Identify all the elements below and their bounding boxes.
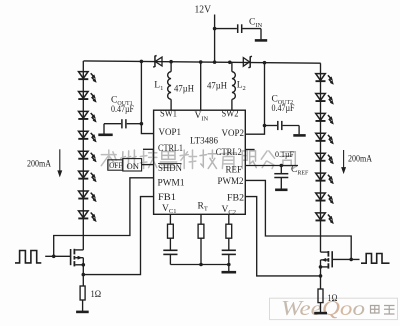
waveform PWM input left [15,251,41,263]
junction node [52,254,56,258]
ground comp network [222,271,237,274]
junction node [319,274,323,278]
junction node [213,27,217,31]
switch OFF/ON [108,160,123,170]
svg-text:200mA: 200mA [27,158,51,168]
capacitor COUT2 0.47uF [265,125,278,127]
diode D2 schottky [243,58,249,67]
wire PWM2 routing [245,180,351,259]
transistor Q2 NMOS [331,251,333,267]
LED D12 right string [316,94,326,101]
LED D11 right string [316,74,326,81]
junction node [227,263,231,267]
svg-text:SW2: SW2 [222,110,239,120]
junction node [140,60,144,64]
svg-text:RT: RT [198,201,208,212]
svg-text:VIN: VIN [195,111,209,122]
LED D8 left string [79,171,89,178]
wire Q2 source down [320,260,322,289]
LED D9 left string [79,191,89,198]
inductor L2 47uH [231,62,233,71]
svg-text:LT3486: LT3486 [190,137,218,147]
wire output node2 to VOP2 [245,63,264,135]
wire left LED string [82,61,84,250]
resistor RT [198,224,204,238]
svg-text:VOP2: VOP2 [222,129,245,139]
ground for CREF [275,189,287,192]
wire VIN pin drop [200,62,202,110]
svg-text:0.47µF: 0.47µF [111,104,134,114]
junction node [263,61,267,65]
LED D6 left string [79,131,89,138]
wire RT pin [200,214,202,224]
svg-text:OFF: OFF [109,161,122,170]
LED D3 left string [79,72,89,79]
LED D16 right string [316,173,326,180]
svg-text:SHDN: SHDN [158,164,182,174]
svg-text:47µH: 47µH [174,84,194,94]
LED D17 right string [316,193,326,200]
wire 12V drop [214,15,216,63]
svg-text:47µH: 47µH [207,81,227,91]
wire FB1 routing [83,197,153,275]
wire comp bottom rail [170,264,228,266]
svg-text:FB1: FB1 [158,193,176,203]
LED D15 right string [316,153,326,160]
junction node [228,60,232,64]
wire FB2 routing [245,197,320,276]
svg-text:200mA: 200mA [348,154,372,164]
wire output node to VOP1 [141,61,153,133]
capacitor CREF 0.1uF [280,166,282,174]
svg-text:SW1: SW1 [160,110,177,120]
junction node [199,263,203,267]
inductor L1 47uH [170,62,172,72]
junction node [169,60,173,64]
junction node [319,265,323,269]
watermark chinese text row [101,150,116,169]
LED D5 left string [79,111,89,118]
transistor Q1 NMOS [70,249,72,265]
arrow 200mA left [59,149,61,172]
watermark weeqoo box [270,298,398,319]
ground for R2 [314,312,327,315]
junction node [349,258,353,262]
compensation network VC1 [169,214,171,224]
resistor R2 1ohm [318,289,323,303]
svg-text:1Ω: 1Ω [91,290,102,300]
wire SHDN to switch [142,164,154,166]
svg-text:CTRL1: CTRL1 [158,144,183,154]
wire REF line [245,165,298,167]
resistor RC2 [226,224,232,238]
capacitor CC2 [222,249,236,251]
ground for CIN [255,39,267,42]
svg-text:1Ω: 1Ω [328,294,338,304]
svg-text:PWM2: PWM2 [218,177,244,187]
junction node [280,164,284,168]
wire Q1 source down [82,258,84,286]
capacitor CC1 [163,249,177,251]
wire top output rail [84,61,321,63]
svg-text:12V: 12V [195,5,212,16]
LED D14 right string [316,133,326,140]
wire gate Q1 [45,255,70,257]
junction node [140,122,144,126]
svg-text:VC1: VC1 [162,204,176,215]
LED D10 left string [79,211,89,218]
ground for COUT2 [293,134,305,137]
svg-text:CIN: CIN [249,18,263,29]
junction node [199,60,203,64]
wire gate Q2 [333,258,360,260]
capacitor CIN [215,28,237,30]
junction node [263,124,267,128]
wire CTRL1 stub [143,148,154,150]
resistor R1 1ohm [80,286,85,300]
wire CTRL2 stub [245,149,254,151]
svg-text:CTRL2: CTRL2 [216,148,242,158]
svg-text:VOP1: VOP1 [159,128,182,138]
svg-text:CREF: CREF [291,165,309,176]
LED D13 right string [316,113,326,120]
svg-text:L1: L1 [154,81,163,92]
svg-text:0.47µF: 0.47µF [272,103,295,113]
LED D4 left string [79,92,89,99]
svg-text:REF: REF [226,165,243,175]
LED D7 left string [79,151,89,158]
ground for R1 [76,311,89,314]
junction node [213,60,217,64]
svg-text:PWM1: PWM1 [158,178,185,188]
LED D18 right string [316,213,326,220]
svg-text:FB2: FB2 [227,193,244,203]
svg-text:ON: ON [127,161,140,171]
svg-text:L2: L2 [237,81,246,92]
resistor RC1 [168,224,174,238]
IC U1 LT3486 [154,110,246,214]
waveform PWM input right [361,254,390,264]
diode D1 schottky [155,57,162,66]
wire SW1 pin [170,99,172,110]
wire PWM1 routing [54,178,154,256]
wire SW2 pin [231,99,233,110]
junction node [82,263,86,267]
svg-text:0.1µF: 0.1µF [275,150,295,159]
arrow 200mA right [343,150,345,169]
compensation network VC2 [228,214,230,224]
wire right LED string [320,63,322,252]
capacitor COUT1 0.47uF [127,123,142,125]
junction node [82,273,86,277]
ground for COUT1 [98,134,112,137]
